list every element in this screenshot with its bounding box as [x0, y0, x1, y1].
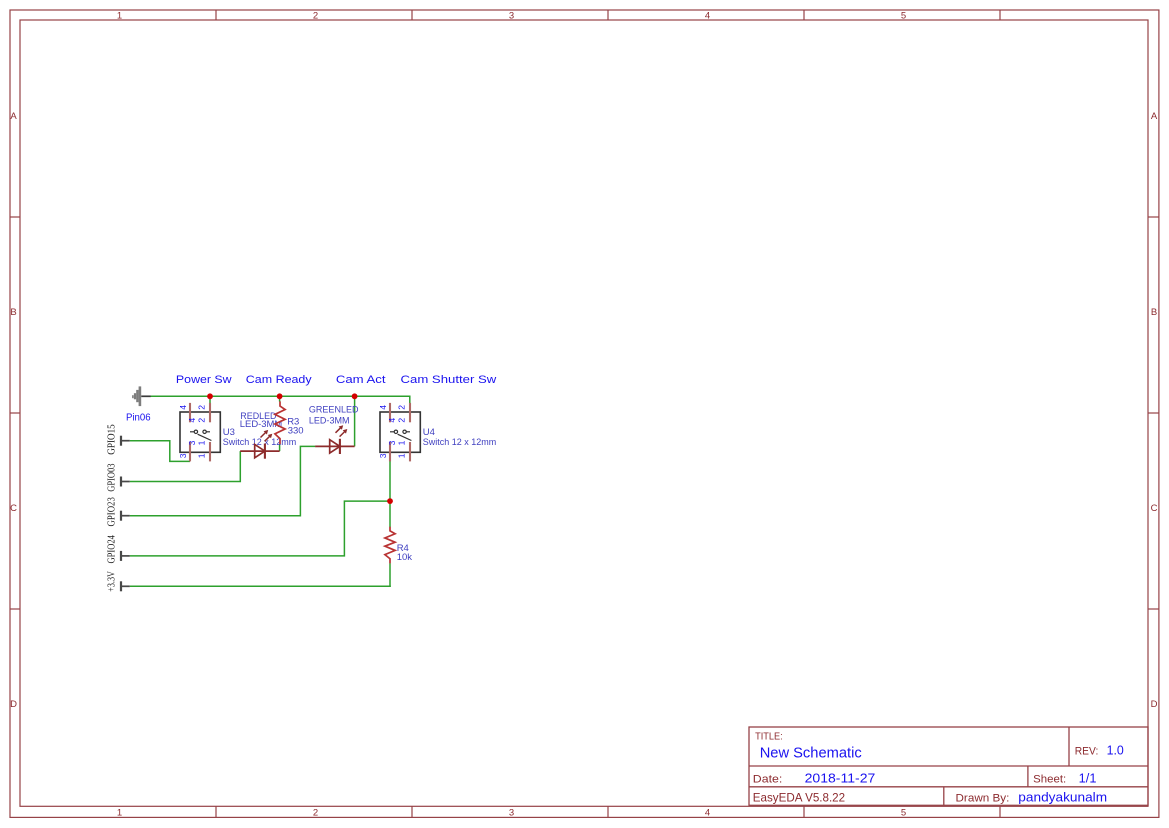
svg-text:10k: 10k [397, 552, 413, 563]
svg-text:3: 3 [378, 453, 388, 458]
svg-text:2: 2 [197, 418, 207, 423]
svg-text:2: 2 [197, 405, 207, 410]
svg-text:pandyakunalm: pandyakunalm [1018, 791, 1107, 805]
svg-text:Cam Act: Cam Act [336, 374, 386, 386]
svg-text:C: C [10, 503, 17, 514]
svg-text:Cam Shutter Sw: Cam Shutter Sw [401, 374, 497, 386]
svg-text:4: 4 [387, 418, 397, 423]
svg-text:Switch 12 x 12mm: Switch 12 x 12mm [223, 437, 296, 448]
svg-text:B: B [10, 307, 16, 318]
svg-text:4: 4 [705, 807, 710, 818]
svg-text:330: 330 [288, 426, 304, 437]
svg-text:3: 3 [178, 453, 188, 458]
svg-text:1: 1 [117, 10, 122, 21]
svg-text:Drawn By:: Drawn By: [956, 793, 1010, 805]
svg-text:Pin06: Pin06 [126, 413, 151, 424]
svg-text:3: 3 [509, 10, 514, 21]
svg-text:LED-3MM: LED-3MM [309, 416, 350, 427]
svg-text:2: 2 [397, 418, 407, 423]
svg-text:3: 3 [387, 440, 397, 445]
svg-text:2: 2 [313, 10, 318, 21]
svg-text:REV:: REV: [1075, 746, 1099, 758]
svg-text:New Schematic: New Schematic [760, 745, 862, 762]
svg-text:4: 4 [705, 10, 710, 21]
svg-text:4: 4 [378, 405, 388, 410]
svg-text:4: 4 [187, 418, 197, 423]
svg-text:3: 3 [187, 440, 197, 445]
svg-text:Date:: Date: [753, 774, 783, 786]
svg-text:1/1: 1/1 [1079, 772, 1097, 786]
svg-text:B: B [1151, 307, 1157, 318]
svg-text:1: 1 [117, 807, 122, 818]
svg-text:A: A [10, 111, 17, 122]
svg-text:1: 1 [397, 453, 407, 458]
svg-text:2: 2 [313, 807, 318, 818]
svg-text:4: 4 [178, 405, 188, 410]
svg-text:A: A [1151, 111, 1158, 122]
svg-text:1.0: 1.0 [1107, 744, 1124, 758]
svg-text:+3.3V: +3.3V [107, 570, 118, 591]
svg-text:TITLE:: TITLE: [755, 731, 783, 742]
svg-text:GPIO03: GPIO03 [107, 464, 118, 492]
svg-text:EasyEDA V5.8.22: EasyEDA V5.8.22 [753, 791, 846, 805]
svg-text:2: 2 [397, 405, 407, 410]
svg-text:D: D [10, 699, 17, 710]
svg-text:Switch 12 x 12mm: Switch 12 x 12mm [423, 437, 496, 448]
svg-text:5: 5 [901, 807, 906, 818]
svg-text:GREENLED: GREENLED [309, 404, 359, 415]
svg-text:GPIO15: GPIO15 [107, 424, 118, 455]
svg-text:C: C [1151, 503, 1158, 514]
svg-text:GPIO24: GPIO24 [107, 535, 118, 563]
svg-text:D: D [1151, 699, 1158, 710]
svg-text:1: 1 [197, 453, 207, 458]
svg-text:Cam Ready: Cam Ready [246, 374, 312, 386]
svg-text:1: 1 [197, 440, 207, 445]
svg-text:2018-11-27: 2018-11-27 [805, 772, 876, 786]
svg-text:GPIO23: GPIO23 [107, 497, 118, 526]
svg-text:5: 5 [901, 10, 906, 21]
svg-text:1: 1 [397, 440, 407, 445]
svg-text:Power Sw: Power Sw [176, 374, 232, 386]
svg-text:Sheet:: Sheet: [1033, 774, 1066, 786]
svg-text:3: 3 [509, 807, 514, 818]
